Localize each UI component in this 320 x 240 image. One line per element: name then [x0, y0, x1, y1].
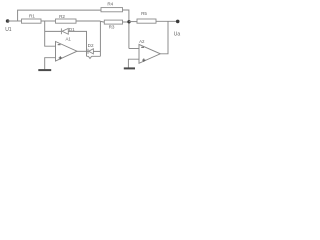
- svg-text:R5: R5: [141, 11, 147, 16]
- wire R2 to node N2: [76, 20, 100, 22]
- pin plus A1: [59, 56, 62, 59]
- wire branch up to top rail: [18, 10, 101, 21]
- label R2: [59, 14, 65, 19]
- label D1: [69, 27, 75, 32]
- wire N3 to R5: [129, 21, 137, 23]
- op-amp A1: [56, 42, 78, 62]
- wire R3 to node N3: [123, 21, 129, 23]
- wire N2 down to D2 output row: [99, 21, 101, 56]
- wire A1 output: [77, 50, 88, 52]
- node N3: [127, 20, 130, 23]
- wire N2 to R3: [100, 20, 104, 23]
- wire A2 output up to output line: [160, 21, 168, 54]
- resistor R1: [22, 19, 42, 23]
- wire N3 to A2 inverting input: [129, 48, 139, 50]
- svg-text:R3: R3: [109, 25, 115, 30]
- ground G2: [124, 67, 135, 69]
- label R4: [107, 2, 113, 7]
- resistor R4: [101, 8, 123, 12]
- svg-text:R2: R2: [59, 14, 65, 19]
- node Ua output terminal: [176, 20, 180, 24]
- wire D1 to A1 output: [68, 31, 86, 56]
- resistor R3: [104, 20, 122, 24]
- label R5: [141, 11, 147, 16]
- resistor R5: [137, 19, 156, 23]
- label R1: [29, 13, 35, 18]
- wire input to R1: [8, 20, 22, 22]
- pin minus A1: [58, 44, 61, 46]
- svg-text:Ua: Ua: [174, 31, 181, 37]
- label A1: [66, 36, 72, 41]
- op-amp A2: [139, 44, 160, 63]
- wire A2 noninverting input to ground: [128, 59, 139, 67]
- label Ua: [174, 31, 181, 37]
- label R3: [109, 25, 115, 30]
- resistor R2: [56, 19, 77, 23]
- node notch mark on bypass rail: [88, 56, 91, 58]
- label U1: [5, 27, 12, 33]
- wire D1 feedback branch: [45, 30, 62, 32]
- wire D2 to N2 corner: [93, 50, 100, 52]
- label D2: [88, 43, 94, 48]
- svg-text:R1: R1: [29, 13, 35, 18]
- ground G1: [38, 69, 51, 71]
- svg-text:D2: D2: [88, 43, 94, 48]
- svg-text:A2: A2: [139, 39, 145, 44]
- node U1 input terminal: [6, 19, 10, 23]
- svg-text:A1: A1: [66, 36, 72, 41]
- wire bottom bypass rail below D2: [87, 55, 101, 57]
- pin plus A2: [142, 59, 145, 62]
- wire R1 to R2: [41, 20, 56, 22]
- diode D2: [88, 49, 93, 54]
- pin minus A2: [141, 46, 144, 48]
- wire A1 noninverting input to ground: [45, 58, 56, 70]
- wire J1 down to A1 inverting input: [45, 21, 56, 46]
- diode D1: [61, 28, 68, 34]
- label A2: [139, 39, 145, 44]
- wire top rail right of R4 down to node N3: [123, 10, 129, 49]
- svg-text:U1: U1: [5, 27, 12, 33]
- svg-text:R4: R4: [107, 2, 113, 7]
- wire R5 to output terminal: [156, 20, 178, 22]
